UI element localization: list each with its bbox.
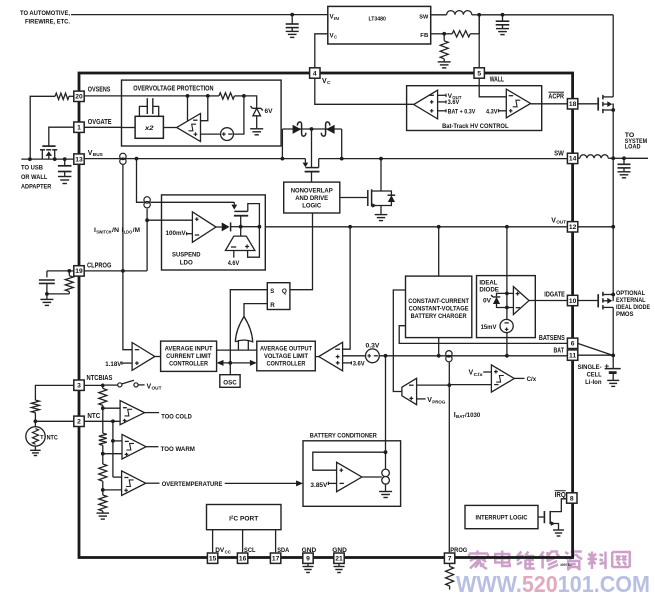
- label 4.3V: [486, 108, 498, 115]
- wire NTC to too warm minus: [113, 440, 122, 442]
- amplifier U12 ideal diode: [513, 287, 529, 315]
- wire pin5 WALL into HV comp: [479, 78, 506, 97]
- voltage reference source V1 OVP: [221, 128, 234, 141]
- wire IBAT/1030 vertical: [448, 362, 450, 553]
- resistor R2 feedback top: [444, 31, 479, 37]
- svg-text:LT3480: LT3480: [369, 16, 387, 22]
- amplifier U7 input current limit: [132, 343, 155, 371]
- wire BAT rail: [379, 355, 567, 357]
- transistor Q7 IRQ NMOS: [544, 499, 566, 530]
- capacitor C5 CLPROG: [39, 271, 55, 294]
- label VPROG: [427, 397, 445, 405]
- pin 20: [74, 91, 84, 101]
- node CLPROG ext junction: [67, 269, 71, 273]
- wire U12 out to IDGATE: [529, 300, 567, 302]
- wire ladder3 to overtemp: [103, 489, 122, 491]
- svg-text:CLPROG: CLPROG: [87, 263, 112, 270]
- transistor Q6 ideal diode PMOS: [598, 292, 613, 310]
- pin 1: [74, 122, 84, 132]
- node OVP B: [206, 94, 210, 98]
- label SDA: [277, 547, 289, 554]
- average output voltage limit controller box: [257, 341, 316, 371]
- I2C port box: [207, 505, 282, 530]
- ground for zener D1: [250, 129, 263, 135]
- diode D3 right body diode: [321, 122, 334, 136]
- svg-text:INTERRUPT LOGIC: INTERRUPT LOGIC: [476, 515, 528, 522]
- resistor R11 PROG: [446, 564, 454, 590]
- amplifier U17 HV control (points left): [414, 90, 438, 119]
- svg-text:+: +: [604, 362, 610, 371]
- wire pin2 to NTC ext: [35, 420, 74, 422]
- zener diode D1 6V: [251, 106, 263, 128]
- svg-text:19: 19: [75, 268, 83, 275]
- wire charger to VPROG amp: [393, 290, 405, 392]
- wire OVSENS into OVP block: [84, 95, 188, 97]
- capacitor C1 input bypass: [286, 15, 299, 31]
- pin 3: [74, 380, 84, 390]
- node NTCBIAS junction: [101, 384, 105, 388]
- pin 12: [567, 222, 577, 232]
- label TOO COLD: [161, 413, 192, 420]
- svg-text:BATSENS: BATSENS: [539, 335, 565, 342]
- svg-text:Bat-Track HV CONTROL: Bat-Track HV CONTROL: [442, 123, 508, 130]
- wire OVGATE to Q1 gate: [49, 127, 74, 146]
- svg-text:S: S: [270, 288, 274, 295]
- transistor Q3 drive FET: [340, 159, 381, 214]
- wire pin3 to ext resistor: [35, 385, 74, 400]
- amplifier U9 output voltage limit: [319, 342, 343, 371]
- resistor R6 ladder1: [99, 385, 107, 408]
- inductor L2 SW: [580, 155, 608, 159]
- label GND pin9: [302, 547, 317, 554]
- svg-text:TO AUTOMOTIVE,: TO AUTOMOTIVE,: [20, 10, 70, 17]
- label INTERRUPT LOGIC: [476, 515, 528, 522]
- svg-text:Q: Q: [282, 288, 287, 295]
- wire VOUT ext down to Q6: [612, 227, 614, 295]
- svg-text:CELL: CELL: [587, 371, 602, 378]
- wire ideal diode mid: [506, 293, 508, 307]
- thermistor RT1 NTC: [26, 421, 45, 450]
- svg-text:WWW.520101.COM: WWW.520101.COM: [456, 571, 650, 597]
- node automotive input cap junction: [290, 13, 294, 17]
- svg-text:C: C: [334, 35, 337, 40]
- wire VBUS branch to LDO: [137, 159, 144, 203]
- wire ladder2 to too warm: [103, 453, 122, 455]
- node SW cap junction: [622, 156, 626, 160]
- ground for ladder: [97, 513, 110, 519]
- svg-text:SW: SW: [554, 150, 564, 157]
- svg-text:NTC: NTC: [47, 434, 59, 441]
- wire BAT to conditioner: [385, 356, 387, 452]
- svg-text:/M: /M: [133, 227, 141, 234]
- node LDO feedback: [258, 225, 262, 229]
- label overvoltage protection: [133, 86, 213, 93]
- pin 21: [334, 553, 344, 563]
- svg-text:TO USB: TO USB: [21, 165, 43, 172]
- wire center body diode vertical: [311, 129, 313, 168]
- svg-text:12: 12: [569, 224, 577, 231]
- wire CLPROG to current limit amp: [123, 271, 132, 350]
- suspend LDO block box: [162, 195, 266, 270]
- resistor R3 feedback bottom: [440, 34, 448, 62]
- capacitor C2 WALL bypass: [496, 15, 510, 28]
- label ACPR: [548, 92, 564, 100]
- wire U12 minus: [507, 307, 514, 309]
- diode D5 LDO output: [216, 222, 241, 231]
- label VC/x: [469, 370, 484, 378]
- wire SW node to VOUT ext: [612, 158, 614, 227]
- label avg output controller: [260, 346, 312, 368]
- label battery conditioner: [310, 432, 377, 439]
- pin 9: [303, 553, 313, 563]
- svg-text:Li-Ion: Li-Ion: [585, 379, 602, 386]
- svg-text:5: 5: [477, 70, 481, 77]
- svg-text:CC: CC: [225, 549, 232, 554]
- amplifier U10 VPROG (trapezoid left): [402, 378, 417, 404]
- ground for conditioner: [379, 492, 392, 498]
- interrupt logic box: [465, 505, 538, 528]
- node SW ext junction: [611, 156, 615, 160]
- svg-text:CONSTANT-VOLTAGE: CONSTANT-VOLTAGE: [409, 306, 469, 313]
- wire L1 to WALL node: [472, 14, 479, 16]
- wire U11 out: [514, 377, 524, 379]
- node Q5 source junction: [611, 108, 615, 112]
- battery BT1 single cell: [604, 355, 620, 380]
- label nonoverlap text: [291, 187, 333, 209]
- svg-text:4: 4: [313, 70, 317, 77]
- label VBUS: [88, 150, 104, 158]
- svg-text:3.6V: 3.6V: [353, 360, 366, 367]
- node VOUT ext junction: [611, 225, 615, 229]
- label OVGATE: [88, 119, 112, 126]
- label 3.85V: [310, 482, 336, 489]
- average input current limit controller box: [161, 341, 217, 371]
- wire VBUS under PMOS: [42, 158, 74, 160]
- wire CLPROG external: [47, 270, 74, 272]
- svg-text:PROG: PROG: [432, 399, 445, 405]
- svg-text:1: 1: [77, 125, 81, 132]
- svg-text:ADPAPTER: ADPAPTER: [21, 184, 52, 191]
- current source I1 conditioner: [382, 452, 390, 491]
- label IDGATE: [544, 292, 565, 299]
- battery conditioner box: [303, 441, 401, 507]
- wire SW pin to inductor: [578, 157, 580, 159]
- pin 15: [207, 553, 217, 563]
- resistor R5 CLPROG: [65, 271, 73, 294]
- wire 3.6V stub: [343, 361, 352, 364]
- svg-text:OVERTEMPERATURE: OVERTEMPERATURE: [162, 481, 223, 488]
- node ladder2: [101, 452, 105, 456]
- label IRQ: [555, 491, 567, 499]
- label NTC ext: [47, 434, 59, 441]
- wire IDGATE to Q6 gate: [578, 300, 598, 302]
- label 0V: [483, 298, 492, 305]
- resistor R9 ladder4: [99, 490, 107, 513]
- current sense symbol ISWITCH on VBUS: [120, 153, 126, 164]
- wire 15mV source top: [506, 308, 508, 320]
- or gate U8: [235, 317, 252, 351]
- amplifier U13 conditioner: [337, 462, 362, 491]
- wire automotive input to VIN: [71, 14, 328, 16]
- pin 6: [567, 338, 577, 348]
- svg-text:BAT: BAT: [456, 414, 465, 420]
- svg-text:OUT: OUT: [152, 386, 162, 392]
- wire overtemperature to conditioner: [225, 480, 303, 486]
- wire too warm out: [146, 446, 158, 448]
- svg-text:WALL: WALL: [490, 76, 505, 83]
- wire interrupt to Q7 gate: [538, 516, 544, 518]
- label ideal diode text: [479, 279, 499, 293]
- ground for R3: [438, 62, 451, 68]
- wire ACPR to ext PMOS gate: [578, 103, 598, 105]
- node CLPROG gnd junction: [45, 292, 49, 296]
- node OVSENS divider junction: [28, 157, 32, 161]
- svg-text:2: 2: [77, 419, 81, 426]
- ground for battery: [607, 380, 619, 386]
- svg-text:IN: IN: [334, 16, 339, 21]
- wire FB resistor to WALL node: [478, 15, 480, 34]
- Bat-Track HV control block box: [407, 86, 542, 131]
- wire LT3480 VC to pin 4: [315, 34, 328, 68]
- svg-text:VOLTAGE LIMIT: VOLTAGE LIMIT: [264, 353, 308, 360]
- svg-text:BAT: BAT: [554, 348, 565, 355]
- label IBAT/1030: [454, 412, 481, 420]
- wire U9 plus to 0.3V source: [343, 355, 366, 357]
- node right diode vertical: [340, 157, 344, 161]
- node S-OSC junction: [228, 361, 232, 365]
- svg-text:TOO COLD: TOO COLD: [161, 413, 192, 420]
- arrow line controllers: [217, 360, 257, 366]
- svg-text:9: 9: [306, 556, 310, 563]
- label NTCBIAS: [87, 375, 113, 382]
- amplifier U6 4.6V clamp (trapezoid): [225, 227, 259, 258]
- svg-text:CONTROLLER: CONTROLLER: [267, 361, 306, 368]
- wire comparator minus input: [201, 96, 208, 121]
- capacitor C6 system load: [618, 158, 631, 171]
- amplifier U5 suspend LDO: [192, 212, 216, 243]
- wire OVSENS to comparator supply: [188, 95, 208, 97]
- ground for C2: [496, 29, 509, 35]
- svg-text:OUT: OUT: [556, 220, 566, 226]
- svg-text:0.3V: 0.3V: [366, 342, 381, 349]
- wire U13 out: [362, 476, 382, 478]
- wire SW ext: [608, 157, 624, 159]
- svg-text:NTCBIAS: NTCBIAS: [87, 375, 113, 382]
- node body diode center: [310, 127, 314, 131]
- pin 17: [270, 553, 280, 563]
- pin 5: [474, 68, 484, 78]
- diode D6 0V ideal: [491, 293, 507, 307]
- wire VBUS rail: [84, 158, 305, 160]
- wire U10 plus VPROG stub: [417, 398, 426, 400]
- svg-text:18: 18: [569, 101, 577, 108]
- node BAT ideal diode branch: [505, 354, 509, 358]
- watermark url: [456, 571, 650, 597]
- wire LDO output inside: [241, 226, 260, 228]
- svg-text:IDEAL: IDEAL: [479, 279, 497, 286]
- wire U12 plus: [507, 292, 514, 294]
- label OPTIONAL EXTERNAL: [616, 290, 650, 318]
- label OVERTEMPERATURE: [162, 481, 223, 488]
- wire LDO supply line: [150, 201, 234, 203]
- svg-text:NTC: NTC: [87, 413, 100, 420]
- label 1.18V: [105, 361, 132, 368]
- wire too cold out: [145, 412, 160, 414]
- svg-text:1.18V: 1.18V: [105, 361, 122, 368]
- svg-text:4099 BD: 4099 BD: [560, 563, 572, 567]
- node BAT conditioner branch: [384, 354, 388, 358]
- pin 18: [567, 99, 577, 109]
- label TO USB: [21, 165, 52, 191]
- wire VC/x stub: [483, 371, 491, 373]
- svg-text:13: 13: [75, 156, 83, 163]
- wire controllers OR link: [217, 349, 257, 351]
- label VC pin4: [322, 78, 331, 86]
- svg-text:17: 17: [272, 556, 280, 563]
- label 4.6V: [228, 260, 240, 267]
- node VBUS to LDO branch: [135, 157, 139, 161]
- resistor R1 OVSENS: [30, 93, 84, 159]
- svg-text:OR WALL: OR WALL: [21, 174, 47, 181]
- wire comparator supply drop: [187, 96, 189, 121]
- svg-text:0V: 0V: [483, 298, 492, 305]
- svg-text:6: 6: [571, 341, 575, 348]
- transistor Q4 LDO pass FET: [231, 202, 259, 226]
- wire comparator output to x2: [163, 127, 176, 129]
- wire NTC net: [84, 420, 120, 422]
- svg-text:PMOS: PMOS: [616, 311, 634, 318]
- pin 19: [74, 266, 84, 276]
- pin 16: [237, 553, 247, 563]
- wire 3.6V stub HV: [438, 100, 446, 103]
- node BAT ext junction: [611, 354, 615, 358]
- node IBAT amp junction: [447, 383, 451, 387]
- wire right diode vertical: [341, 129, 343, 159]
- node VOUT to ideal diode: [505, 225, 509, 229]
- node NTC ext junction: [34, 419, 38, 423]
- node LDO plus input tap: [145, 218, 149, 222]
- wire charger to BAT: [438, 338, 440, 356]
- wire DVCC: [212, 530, 214, 553]
- wire NTC vertical: [112, 421, 114, 477]
- svg-text:SINGLE-: SINGLE-: [578, 364, 602, 371]
- label VOUT pin12: [551, 217, 566, 225]
- node ladder3: [101, 488, 105, 492]
- comparator U15 too warm: [122, 434, 146, 459]
- svg-text:4.3V: 4.3V: [486, 108, 498, 115]
- ground for C1: [286, 31, 299, 37]
- node WALL top junction: [477, 13, 481, 17]
- ground for CLPROG RC: [40, 294, 53, 306]
- svg-text:6V: 6V: [265, 108, 274, 115]
- label OSC: [223, 379, 237, 386]
- wire latch Q to nonoverlap: [290, 213, 313, 290]
- label NTC pin: [87, 413, 100, 420]
- diode D2 left body diode: [293, 122, 306, 136]
- svg-text:8: 8: [570, 495, 574, 502]
- nonoverlap and drive logic box: [284, 182, 340, 213]
- ground for NTC: [30, 450, 41, 455]
- svg-text:BUS: BUS: [93, 152, 104, 158]
- overvoltage protection block box: [122, 80, 282, 146]
- IC main boundary box: [79, 73, 573, 558]
- wire U7 out: [155, 356, 161, 358]
- svg-text:10: 10: [569, 298, 577, 305]
- node Q1 drain junction: [53, 157, 57, 161]
- wire Q5 to SW node: [612, 110, 614, 158]
- wire NTCBIAS net: [84, 384, 103, 386]
- current sense symbol ILDO: [144, 197, 150, 208]
- svg-text:TOO WARM: TOO WARM: [161, 446, 195, 453]
- svg-text:LOAD: LOAD: [625, 145, 641, 151]
- svg-text:20: 20: [75, 94, 83, 101]
- svg-text:21: 21: [335, 556, 343, 563]
- label SCL: [244, 547, 256, 554]
- svg-text:AND DRIVE: AND DRIVE: [295, 195, 328, 202]
- svg-text:SWITCH: SWITCH: [96, 229, 112, 234]
- wire U9 minus to VOUT: [343, 227, 351, 349]
- wire 4.3V stub: [499, 109, 507, 112]
- wire 15mV to BAT: [506, 333, 508, 356]
- wire ISWITCH/N vertical: [122, 165, 124, 271]
- node ideal diode plus: [505, 292, 509, 296]
- label CLPROG: [87, 263, 112, 270]
- body diodes line: [282, 128, 341, 130]
- label GND pin21: [332, 547, 347, 554]
- wire CLPROG net: [84, 270, 147, 272]
- wire U9 out to box: [315, 356, 318, 358]
- svg-text:C/x: C/x: [527, 376, 537, 383]
- node NTC warm tap: [111, 439, 115, 443]
- comparator U14 too cold: [120, 401, 144, 425]
- svg-text:LOGIC: LOGIC: [302, 202, 321, 209]
- transistor Q2 main switch FET: [303, 159, 320, 183]
- latch labels: [270, 288, 287, 309]
- label suspend LDO: [172, 252, 201, 267]
- svg-text:AVERAGE OUTPUT: AVERAGE OUTPUT: [260, 346, 312, 353]
- svg-text:OVERVOLTAGE PROTECTION: OVERVOLTAGE PROTECTION: [133, 86, 213, 93]
- wire WALL node to right: [479, 14, 613, 16]
- svg-text:CONSTANT-CURRENT: CONSTANT-CURRENT: [408, 298, 469, 305]
- comparator U16 overtemperature: [122, 471, 146, 496]
- node ladder1: [101, 406, 105, 410]
- svg-text:15mV: 15mV: [481, 324, 498, 331]
- svg-text:NONOVERLAP: NONOVERLAP: [291, 187, 333, 194]
- svg-text:EXTERNAL: EXTERNAL: [616, 297, 646, 304]
- svg-text:BAT + 0.3V: BAT + 0.3V: [448, 109, 476, 116]
- label avg input controller: [165, 346, 213, 368]
- voltage source V3 15mV: [500, 319, 513, 332]
- ground for C6: [618, 172, 631, 178]
- svg-text:CONTROLLER: CONTROLLER: [169, 361, 208, 368]
- label OVSENS: [88, 86, 111, 93]
- pin 11: [567, 350, 577, 360]
- wire U11 minus to IBAT node: [449, 384, 491, 386]
- wire pin4 VC to HV amp: [315, 78, 414, 104]
- label 3.6V U9: [353, 360, 366, 367]
- wire to LDO amp plus: [147, 219, 192, 221]
- SR latch U3 box: [267, 283, 290, 310]
- node drive FET drain: [379, 157, 383, 161]
- label TOO WARM: [161, 446, 195, 453]
- wire VOUT pin ext: [578, 226, 614, 228]
- label BATSENS: [539, 335, 565, 342]
- ground for C3: [58, 177, 71, 184]
- switch S1 to VOUT: [105, 380, 145, 387]
- svg-text:7: 7: [448, 556, 452, 563]
- svg-text:3.6V: 3.6V: [448, 99, 460, 106]
- svg-text:15: 15: [209, 556, 217, 563]
